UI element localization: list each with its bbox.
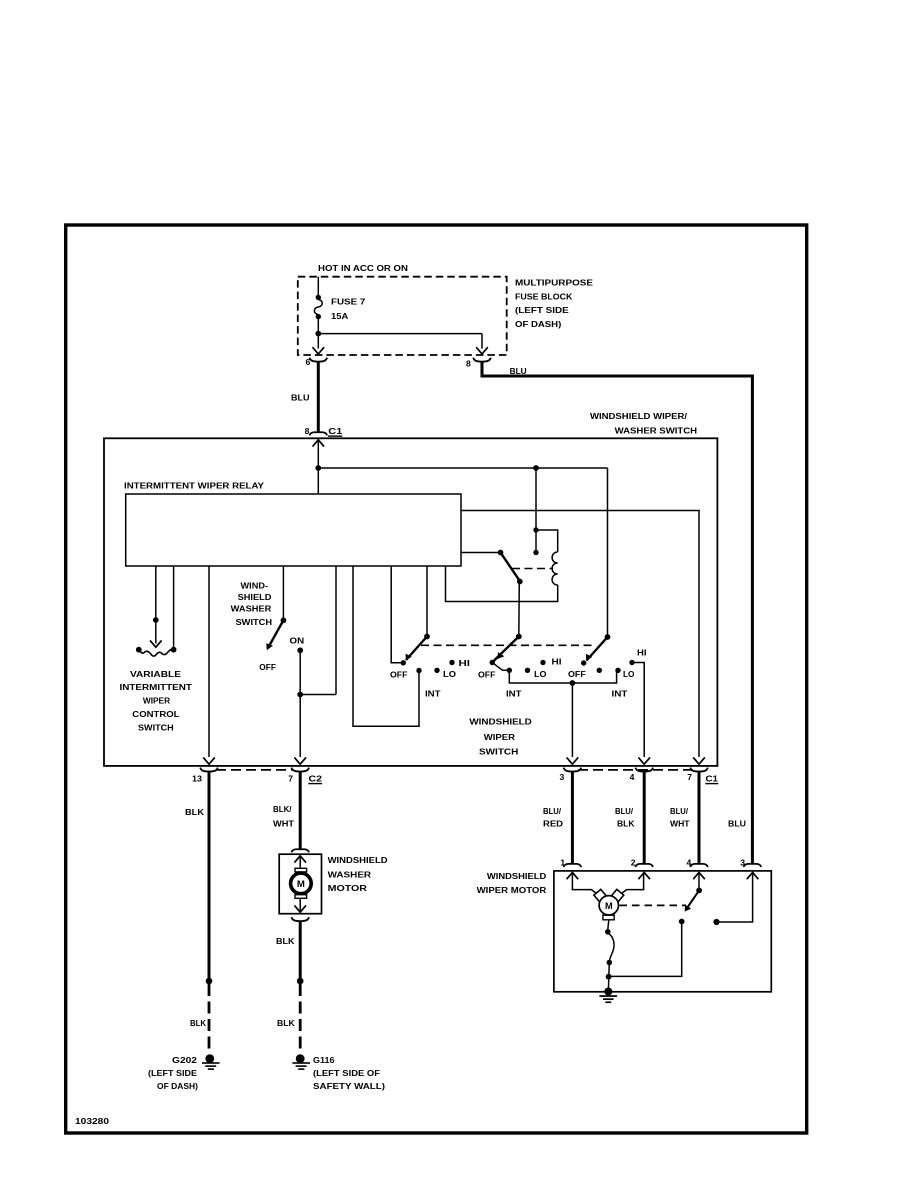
svg-text:LO: LO [623, 669, 635, 679]
svg-text:SWITCH: SWITCH [138, 723, 174, 733]
svg-text:ON: ON [290, 635, 305, 645]
svg-text:1: 1 [560, 857, 565, 867]
svg-text:C1: C1 [706, 773, 719, 783]
svg-text:OFF: OFF [259, 662, 276, 672]
svg-text:FUSE BLOCK: FUSE BLOCK [515, 291, 573, 301]
svg-text:WHT: WHT [670, 819, 690, 829]
svg-text:7: 7 [687, 772, 692, 782]
svg-text:WASHER: WASHER [231, 603, 273, 613]
svg-text:G202: G202 [172, 1055, 197, 1065]
svg-text:M: M [605, 901, 613, 911]
svg-text:VARIABLE: VARIABLE [130, 669, 181, 679]
svg-text:BLK: BLK [276, 936, 295, 946]
svg-text:WASHER: WASHER [328, 870, 372, 880]
svg-text:BLK: BLK [277, 1018, 295, 1028]
svg-text:OFF: OFF [568, 669, 586, 679]
svg-text:WIPER MOTOR: WIPER MOTOR [477, 885, 548, 895]
svg-text:SAFETY WALL): SAFETY WALL) [313, 1081, 385, 1091]
svg-text:BLU: BLU [728, 819, 746, 829]
svg-text:WIND-: WIND- [241, 580, 269, 590]
svg-text:C2: C2 [309, 773, 323, 783]
svg-text:WIPER: WIPER [484, 732, 516, 742]
svg-text:15A: 15A [331, 311, 348, 321]
svg-text:HI: HI [552, 657, 562, 667]
svg-text:INT: INT [612, 688, 629, 698]
svg-text:WIPER: WIPER [143, 695, 171, 705]
svg-text:MOTOR: MOTOR [328, 883, 368, 893]
svg-text:2: 2 [631, 857, 636, 867]
svg-text:INT: INT [425, 689, 441, 699]
svg-text:WHT: WHT [273, 819, 295, 829]
svg-text:BLU/: BLU/ [615, 806, 634, 816]
svg-text:BLU: BLU [510, 366, 527, 376]
svg-text:WASHER SWITCH: WASHER SWITCH [615, 425, 698, 435]
svg-text:BLK/: BLK/ [273, 804, 292, 814]
svg-text:INT: INT [506, 689, 522, 699]
svg-text:SHIELD: SHIELD [238, 592, 272, 602]
svg-text:13: 13 [192, 773, 202, 783]
svg-text:BLU/: BLU/ [670, 806, 689, 816]
svg-text:WINDSHIELD WIPER/: WINDSHIELD WIPER/ [590, 411, 688, 421]
svg-text:MULTIPURPOSE: MULTIPURPOSE [515, 277, 593, 287]
svg-text:M: M [297, 879, 305, 890]
svg-text:8: 8 [305, 426, 310, 436]
svg-text:OFF: OFF [390, 670, 408, 680]
svg-text:6: 6 [306, 357, 311, 367]
svg-text:4: 4 [687, 857, 692, 867]
svg-text:G116: G116 [313, 1055, 335, 1065]
svg-text:4: 4 [630, 772, 635, 782]
svg-text:WINDSHIELD: WINDSHIELD [487, 871, 546, 881]
svg-text:OF DASH): OF DASH) [157, 1081, 198, 1091]
svg-text:INTERMITTENT WIPER RELAY: INTERMITTENT WIPER RELAY [124, 481, 264, 491]
svg-text:BLK: BLK [185, 807, 205, 817]
svg-text:RED: RED [543, 819, 563, 829]
svg-text:HI: HI [637, 647, 647, 657]
svg-text:8: 8 [466, 359, 471, 369]
svg-text:HI: HI [459, 658, 471, 668]
svg-text:SWITCH: SWITCH [479, 747, 518, 757]
svg-text:C1: C1 [328, 426, 342, 436]
svg-text:(LEFT SIDE: (LEFT SIDE [148, 1068, 197, 1078]
svg-text:FUSE 7: FUSE 7 [331, 297, 366, 307]
svg-text:7: 7 [288, 773, 293, 783]
svg-text:WINDSHIELD: WINDSHIELD [328, 855, 388, 865]
svg-text:BLK: BLK [617, 819, 635, 829]
svg-text:BLU/: BLU/ [543, 806, 562, 816]
svg-text:BLU: BLU [291, 393, 310, 403]
svg-text:103280: 103280 [75, 1116, 109, 1126]
svg-text:(LEFT SIDE: (LEFT SIDE [515, 305, 569, 315]
svg-text:(LEFT SIDE OF: (LEFT SIDE OF [313, 1068, 380, 1078]
svg-text:SWITCH: SWITCH [236, 617, 273, 627]
svg-text:WINDSHIELD: WINDSHIELD [469, 717, 531, 727]
svg-text:INTERMITTENT: INTERMITTENT [120, 682, 193, 692]
svg-text:BLK: BLK [190, 1018, 207, 1028]
svg-text:LO: LO [534, 669, 547, 679]
svg-text:3: 3 [740, 857, 745, 867]
svg-text:OFF: OFF [478, 670, 496, 680]
svg-text:HOT IN ACC OR ON: HOT IN ACC OR ON [318, 263, 408, 273]
svg-text:LO: LO [443, 669, 456, 679]
svg-text:OF DASH): OF DASH) [515, 319, 561, 329]
svg-text:CONTROL: CONTROL [132, 709, 179, 719]
svg-text:3: 3 [560, 772, 565, 782]
